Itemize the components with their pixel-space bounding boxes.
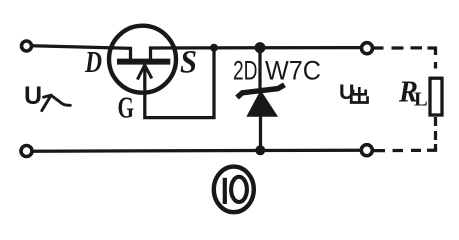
svg-text:W7C: W7C <box>265 56 321 86</box>
zener diode D1 anode triangle <box>248 92 276 116</box>
wire dashed top corner <box>428 48 436 69</box>
wire gate lead <box>145 48 214 118</box>
wire zener upper <box>258 48 261 89</box>
resistor RL <box>430 78 442 115</box>
terminal input bottom <box>21 146 32 157</box>
transistor Q1 channel bar <box>117 59 170 65</box>
wire zener lower <box>259 114 262 150</box>
wire top rail right <box>151 48 362 60</box>
svg-text:2D: 2D <box>233 56 258 86</box>
transistor Q1 body <box>109 26 176 93</box>
wire dashed bottom corner <box>374 144 436 151</box>
node zener bottom junction <box>255 145 265 155</box>
wire top rail left <box>32 46 131 60</box>
svg-text:G: G <box>118 90 135 125</box>
svg-text:U: U <box>24 82 42 110</box>
terminal output bottom <box>361 145 372 156</box>
node zener top junction <box>255 42 266 53</box>
svg-text:D: D <box>84 44 102 79</box>
svg-text:S: S <box>180 45 197 81</box>
wire dashed top <box>374 46 422 49</box>
transistor Q1 gate arrow <box>137 65 151 80</box>
wire bottom rail <box>33 150 362 151</box>
figure number circle 10 <box>214 167 254 213</box>
label chu (Chinese: out) subscript of U-out <box>350 87 369 103</box>
label ru (Chinese: enter) subscript of U-in <box>42 95 71 111</box>
svg-text:L: L <box>414 89 428 111</box>
terminal input top <box>22 41 32 51</box>
zener diode D1 cathode bar <box>237 85 285 98</box>
wire dashed bottom stub <box>434 117 437 140</box>
node gate-source junction <box>210 44 218 52</box>
terminal output top <box>362 43 373 54</box>
